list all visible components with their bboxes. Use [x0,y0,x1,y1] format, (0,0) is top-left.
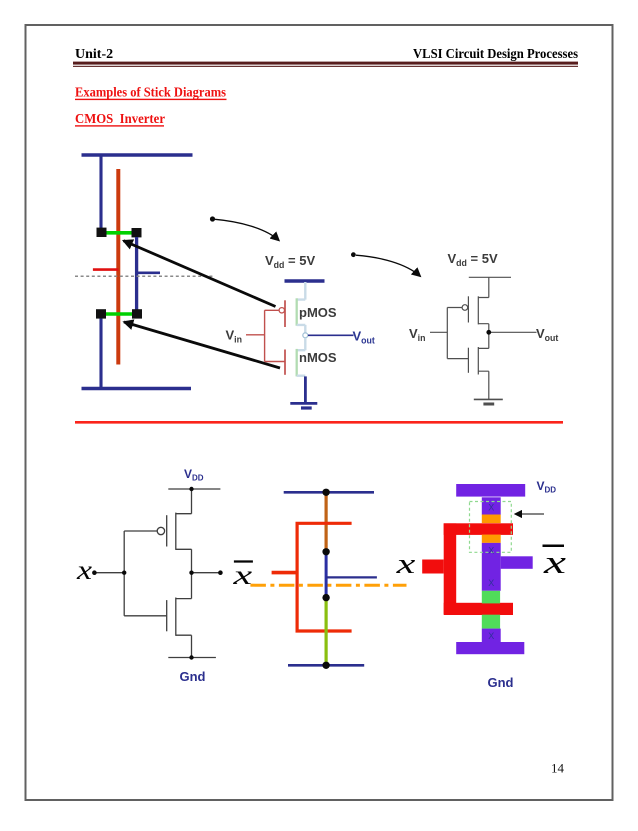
gate bus [265,310,286,361]
pMOS gate wire [124,530,157,532]
ground symbol [474,398,503,400]
input wire x [94,572,124,574]
pMOS gate bubble [279,308,284,313]
svg-text:X: X [488,578,494,588]
wire to ground [304,376,307,402]
svg-text:CMOS Inverter: CMOS Inverter [75,111,165,126]
pMOS channel [477,296,479,324]
demarcation dashed line [75,275,214,277]
svg-text:VLSI Circuit Design Processes: VLSI Circuit Design Processes [413,47,578,62]
contact dot pMOS drain [322,548,329,555]
pMOS gate bubble [462,305,468,311]
pMOS channel [296,298,298,325]
nMOS channel [477,347,479,375]
Vdd rail stick [284,491,374,494]
red separator rule [75,421,563,424]
output node dot [486,330,491,335]
poly gate bottom bar (red) [444,603,513,615]
output branch stick [326,576,377,578]
svg-text:x: x [543,545,567,581]
nMOS diffusion stick (green) [325,598,328,666]
pMOS gate bar [166,515,168,546]
pMOS gate bar [467,296,469,322]
nMOS gate bar [166,600,168,631]
gate bus [447,308,468,359]
contact dot at Vdd [322,489,329,496]
pMOS channel [175,513,177,550]
wire Vdd to pMOS [176,489,192,514]
pMOS gate bubble [157,527,164,534]
contact dot nMOS drain [322,594,329,601]
output wire [491,331,537,333]
output metal branch [135,271,160,274]
pMOS gate bar [284,300,286,327]
curved annotation arrow (left) [210,216,215,221]
poly gate left vertical (red) [444,523,457,614]
nMOS source lead [478,371,489,399]
n-well dashed outline [470,502,512,553]
Gnd rail stick [288,664,364,667]
thick pointer arrow to pMOS diffusion [124,241,276,307]
metal stem above Gnd (purple) [482,629,501,644]
svg-text:X: X [488,503,494,513]
header rule thick [73,62,578,65]
red poly branch (input) [93,268,119,271]
poly gate U (red) [297,523,352,631]
svg-text:x: x [232,560,252,590]
svg-text:Vdd = 5V: Vdd = 5V [265,253,315,270]
p-diffusion stick of pMOS (green) [104,231,134,235]
svg-text:Unit-2: Unit-2 [75,47,113,62]
nMOS channel [296,349,298,377]
Gnd metal rail (stick) [82,387,192,390]
pMOS source lead [478,277,489,297]
annotation arrow to contact [515,513,544,515]
ground symbol [290,402,317,405]
metal Gnd bar (purple) [456,642,524,654]
output metal middle (purple) [482,543,501,591]
pMOS diffusion lower (orange) [482,535,501,543]
metal Vdd bar (purple) [456,484,525,497]
output metal stick (blue) [325,552,328,598]
output wire [192,572,221,574]
Vdd rail [285,279,325,282]
nMOS drain lead [176,573,192,599]
label x-bar (layout output) [543,545,565,548]
junction dots of bottom-left schematic [189,487,193,491]
input wire Vin [246,334,265,336]
poly gate top bar (red) [444,523,513,535]
header rule thin [73,66,578,67]
orange chop line (dash-dot) [250,584,406,587]
svg-text:Examples of Stick Diagrams: Examples of Stick Diagrams [75,85,226,100]
svg-text:x: x [76,555,93,585]
svg-text:14: 14 [551,761,565,776]
svg-text:X: X [488,546,494,556]
svg-text:Gnd: Gnd [180,669,206,684]
nMOS gate wire [124,615,167,617]
polysilicon input stick (red vertical) [116,169,120,365]
svg-text:pMOS: pMOS [299,305,337,320]
pMOS drain lead [478,324,489,331]
contact nMOS source [96,309,106,318]
output metal stick (vertical) [135,237,138,310]
poly input stub [272,571,298,575]
nMOS source lead [297,375,306,377]
nMOS drain lead [297,338,306,350]
output metal stub right (purple) [501,556,533,569]
poly input stub (red) [422,560,444,574]
nMOS channel [175,598,177,636]
pMOS source stick (brown-orange) [325,492,328,552]
output node circle [303,333,308,338]
output wire [308,334,354,336]
Gnd rail [168,657,216,659]
pMOS diffusion upper (orange) [482,515,501,524]
nMOS source lead [176,635,192,657]
n-diffusion stick of nMOS (green) [104,312,134,316]
Vdd metal rail (stick) [82,153,193,156]
label x-bar (output) [234,560,253,562]
svg-text:x: x [395,548,415,579]
nMOS drain lead [478,333,489,348]
contact dot at Gnd [322,662,329,669]
nMOS gate bar [467,348,469,373]
nMOS gate bar [284,350,286,375]
pMOS source lead [297,282,306,300]
contact pMOS drain [132,228,142,237]
contact pMOS source [97,228,107,237]
Vdd rail [469,276,511,278]
pMOS drain lead [297,325,306,333]
nMOS diffusion upper (green) [482,591,500,604]
thick pointer arrow to nMOS diffusion [124,322,280,368]
input wire [430,331,447,333]
metal stem below Vdd (purple) [482,497,501,514]
metal wire from Vdd rail to pMOS contact [99,155,102,228]
contact nMOS drain [132,309,142,318]
curved annotation arrow (right) [351,252,356,257]
Vdd rail [168,488,220,490]
metal wire from nMOS contact to Gnd rail [99,319,102,389]
svg-text:X: X [488,631,494,641]
svg-text:nMOS: nMOS [299,350,337,365]
pMOS drain lead to output [176,549,192,572]
svg-text:Gnd: Gnd [488,675,514,690]
input gate bus [123,531,125,616]
svg-text:Vdd = 5V: Vdd = 5V [448,251,498,268]
nMOS diffusion lower (green) [482,615,500,629]
